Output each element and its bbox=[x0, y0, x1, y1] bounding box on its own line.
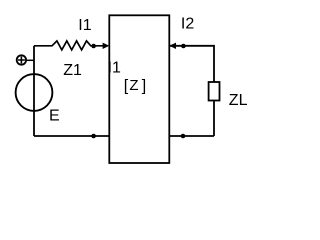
svg-text:[: [ bbox=[124, 77, 129, 94]
svg-text:I1: I1 bbox=[78, 17, 91, 34]
svg-text:Z1: Z1 bbox=[63, 62, 82, 79]
svg-text:ZL: ZL bbox=[229, 92, 248, 109]
svg-text:I2: I2 bbox=[181, 16, 194, 33]
svg-text:]: ] bbox=[142, 77, 146, 94]
svg-text:Z: Z bbox=[129, 77, 138, 94]
svg-text:E: E bbox=[49, 108, 60, 125]
svg-text:I1: I1 bbox=[108, 60, 121, 77]
